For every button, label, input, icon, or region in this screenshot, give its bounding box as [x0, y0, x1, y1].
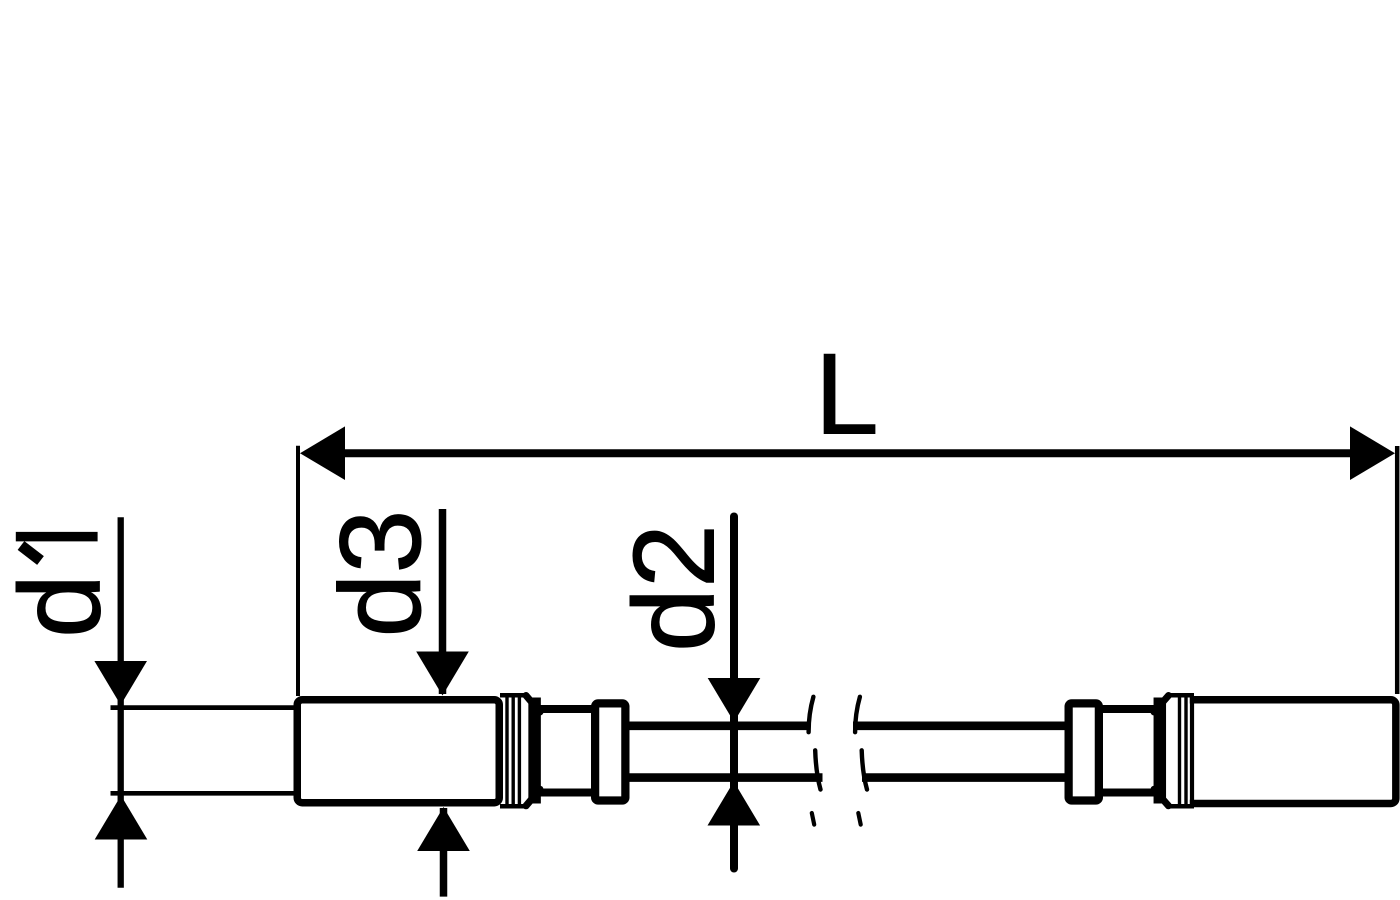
- right body left boundary line: [1190, 697, 1194, 807]
- hose d2 top line left segment: [628, 721, 810, 730]
- label d1 digit flag: [21, 546, 41, 561]
- break line 1 upper: [809, 697, 814, 732]
- dimension d1 line: [118, 517, 124, 887]
- break line 2 lower: [862, 750, 867, 789]
- right chamfer bottom: [1154, 789, 1169, 806]
- dimension d2 arrowhead down: [708, 678, 761, 722]
- left shoulder edge: [528, 698, 541, 804]
- dimension L extension line left: [296, 446, 300, 696]
- right ring rib line 2: [1184, 695, 1187, 807]
- right collar: [1069, 703, 1099, 800]
- break line 1 lower: [815, 750, 820, 789]
- dimension d1 arrowhead up: [95, 796, 148, 840]
- right neck bottom line: [1100, 789, 1158, 797]
- dimension L extension line right: [1395, 446, 1400, 694]
- right neck top line: [1100, 705, 1158, 713]
- left chamfer top: [526, 696, 540, 713]
- right ring rib line 1: [1178, 695, 1181, 807]
- left ring rib line 3: [518, 695, 521, 807]
- right fitting body: [1190, 700, 1396, 804]
- dimension d3 line upper: [439, 509, 447, 694]
- svg-text:d3: d3: [317, 510, 445, 638]
- right chamfer top: [1154, 696, 1169, 713]
- label d1 digit stem: [16, 532, 98, 542]
- svg-text:d: d: [0, 574, 125, 638]
- dimension L line: [340, 449, 1355, 457]
- dimension d1 arrowhead down: [94, 661, 147, 705]
- dimension d3 arrowhead up: [417, 807, 470, 851]
- dimension d3 arrowhead down: [416, 652, 469, 696]
- left ring rib line 2: [512, 695, 515, 807]
- pipe d1 bottom line: [111, 791, 297, 796]
- left fitting body: [297, 700, 499, 803]
- dimension d2 line: [730, 517, 738, 869]
- break line 2 dash: [858, 813, 860, 825]
- hose d2 bottom line right segment: [862, 773, 1067, 782]
- hose d2 bottom line left segment: [628, 773, 823, 782]
- break line 1 dash: [812, 813, 814, 825]
- left neck top line: [538, 705, 600, 713]
- hose d2 top line right segment: [853, 721, 1067, 730]
- dimension L arrowhead left: [300, 426, 345, 480]
- dimension L arrowhead right: [1350, 426, 1395, 480]
- right shoulder edge: [1154, 698, 1167, 804]
- right fitting ribbed ring top edge: [1166, 693, 1194, 698]
- left chamfer bottom: [526, 789, 540, 806]
- dimension d2 arrowhead up: [708, 782, 761, 826]
- left fitting ribbed ring bottom edge: [500, 804, 527, 809]
- left ring rib line 1: [505, 695, 508, 807]
- svg-text:L: L: [815, 330, 879, 458]
- break line 2 upper: [855, 697, 860, 732]
- left fitting ribbed ring top edge: [500, 693, 527, 698]
- left neck bottom line: [538, 789, 600, 797]
- pipe d1 top line: [111, 705, 297, 710]
- right fitting ribbed ring bottom edge: [1166, 804, 1194, 809]
- dimension d3 lower shaft: [440, 808, 448, 897]
- svg-text:d2: d2: [611, 524, 739, 652]
- left collar: [595, 703, 625, 800]
